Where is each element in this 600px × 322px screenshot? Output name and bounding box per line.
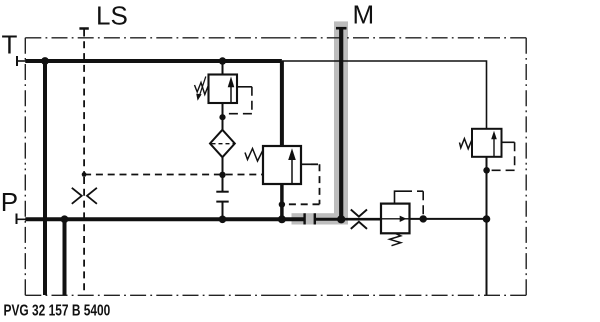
wire P lead	[17, 218, 27, 220]
wire M line	[339, 28, 343, 219]
relief valve U1 adjust arrow	[200, 77, 206, 95]
wire filter to LS line	[222, 157, 224, 175]
node U4 pilot junction	[483, 167, 490, 174]
pilot line U1 dashed down	[251, 87, 253, 114]
wire U4 down to P	[486, 157, 488, 219]
relief valve U1 body	[209, 75, 238, 104]
wire T thin extension right	[282, 61, 487, 129]
wire P resumed to M junction	[315, 218, 341, 221]
node LS junction below filter	[219, 172, 225, 178]
wire P right section	[410, 218, 487, 220]
pilot line U4 solid stub	[502, 141, 515, 143]
pilot line U2 dashed down	[319, 164, 321, 204]
wire LS dashed down below orifice	[83, 177, 85, 291]
wire T down to next section	[43, 61, 47, 295]
node P junction left	[61, 215, 69, 223]
compensator U3 flow line out	[404, 218, 410, 220]
orifice O1 on LS drain	[72, 188, 97, 204]
compensator valve U3 body	[381, 204, 410, 234]
plug symbol lower stem	[222, 202, 224, 220]
svg-text:M: M	[353, 0, 375, 30]
reducing valve U2 top thick connector	[280, 61, 284, 146]
relief valve U1 arrow	[230, 87, 232, 104]
plug symbol lower tick	[216, 201, 228, 203]
wire U1 bottom connector	[222, 103, 224, 131]
filter F1 diamond	[210, 130, 235, 157]
highlight band P-M horizontal	[292, 213, 349, 224]
node LS junction	[82, 172, 87, 177]
svg-text:PVG 32 157 B 5400: PVG 32 157 B 5400	[4, 301, 111, 319]
node pilot junction below U1	[219, 114, 225, 120]
wire T main line	[25, 59, 282, 63]
wire P main line	[25, 217, 303, 221]
enclosure border bottom	[25, 294, 275, 296]
plug tick P line right	[314, 213, 316, 224]
pilot line U3 dashed down	[422, 191, 424, 219]
filter F1 element dashes	[212, 143, 234, 145]
node M P junction	[337, 215, 345, 223]
svg-text:LS: LS	[96, 1, 128, 31]
wire P down to next section	[63, 219, 67, 295]
pilot line U1 dashed left	[228, 113, 252, 115]
highlight band M vertical	[334, 21, 348, 224]
enclosure border right	[525, 38, 527, 166]
orifice O2 on P line	[351, 210, 367, 229]
plug symbol upper stem	[222, 175, 224, 192]
node U3 pilot P junction	[420, 215, 427, 222]
reducing valve U2 body	[263, 146, 301, 184]
pilot line U2 solid stub	[301, 163, 311, 165]
wire T lead	[17, 60, 26, 62]
node U2 P junction	[278, 215, 286, 223]
node U2 pilot junction	[279, 201, 285, 207]
enclosure border left	[24, 38, 26, 166]
wire LS dashed horizontal	[84, 174, 263, 176]
relief valve U4 spring	[460, 139, 473, 149]
pilot line U1 solid	[237, 86, 252, 88]
wire LS dashed down	[83, 30, 85, 175]
compensator U3 arrow head	[400, 216, 407, 222]
pilot line U4 dashed left	[490, 169, 515, 171]
pilot line U2 dashed right	[311, 163, 320, 165]
port T tick	[16, 56, 18, 66]
compensator U3 flow line	[381, 218, 400, 220]
node T junction left	[41, 57, 49, 65]
pilot line U2 dashed left	[286, 203, 320, 205]
compensator U3 spring	[390, 233, 401, 245]
wire U1 top connector	[222, 61, 224, 75]
wire P drain down right	[486, 219, 488, 295]
pilot line U3 solid up	[395, 191, 404, 203]
node P junction plug column	[219, 216, 227, 224]
wire U2 bottom connector	[280, 184, 284, 219]
reducing valve U2 arrow	[291, 160, 293, 185]
svg-text:P: P	[1, 187, 18, 217]
port LS tick	[79, 27, 88, 30]
relief valve U4 body	[472, 129, 502, 157]
port P tick	[16, 214, 18, 225]
node T junction above relief valve U1	[219, 57, 226, 64]
relief valve U4 arrow	[493, 139, 495, 157]
svg-text:T: T	[2, 29, 18, 59]
port M tick	[336, 27, 347, 30]
enclosure border top	[25, 37, 275, 39]
relief valve U1 spring	[195, 83, 209, 95]
plug tick P line left	[303, 213, 305, 224]
plug symbol upper tick	[216, 191, 228, 193]
wire P to compensator	[341, 218, 381, 221]
node U4 P junction	[483, 215, 491, 223]
pilot line U3 dashed right	[403, 190, 423, 192]
reducing valve U2 spring	[245, 149, 263, 162]
pilot line U4 dashed down	[514, 142, 516, 170]
